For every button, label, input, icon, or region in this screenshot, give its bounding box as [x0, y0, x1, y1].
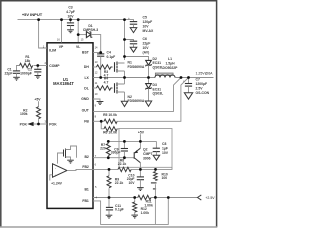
- svg-text:220: 220: [100, 147, 106, 151]
- svg-text:3906: 3906: [143, 156, 151, 160]
- svg-text:DH: DH: [84, 65, 89, 69]
- svg-text:FB: FB: [84, 120, 89, 124]
- svg-text:1µF: 1µF: [162, 146, 168, 150]
- svg-text:+1.24V: +1.24V: [51, 181, 63, 185]
- svg-text:D1: D1: [88, 24, 92, 28]
- svg-text:ILIM: ILIM: [49, 48, 56, 52]
- svg-text:POK: POK: [20, 122, 28, 126]
- svg-text:C8: C8: [162, 142, 166, 146]
- svg-text:FB1: FB1: [82, 199, 89, 203]
- svg-text:18k: 18k: [25, 59, 31, 63]
- svg-text:R6 10.0k: R6 10.0k: [103, 131, 117, 135]
- svg-text:C3: C3: [68, 5, 72, 9]
- svg-text:0.1µF: 0.1µF: [107, 55, 116, 59]
- svg-text:1200µF: 1200µF: [196, 82, 208, 86]
- svg-text:DO5022P: DO5022P: [163, 66, 179, 70]
- svg-text:+5V: +5V: [34, 97, 41, 101]
- svg-text:22.1k: 22.1k: [118, 162, 127, 166]
- svg-text:MAX1864T: MAX1864T: [53, 81, 74, 86]
- svg-text:330pF: 330pF: [111, 151, 121, 155]
- svg-text:4.7µF: 4.7µF: [66, 10, 75, 14]
- svg-text:QS03L: QS03L: [153, 92, 164, 96]
- svg-text:CMPSH-3: CMPSH-3: [83, 28, 98, 32]
- svg-text:10V: 10V: [143, 24, 150, 28]
- svg-text:LX: LX: [84, 76, 89, 80]
- svg-text:POK: POK: [49, 123, 57, 127]
- svg-text:B1: B1: [84, 188, 88, 192]
- svg-text:C7: C7: [196, 78, 200, 82]
- svg-text:FDS6690A: FDS6690A: [128, 99, 145, 103]
- svg-text:FB2: FB2: [82, 165, 89, 169]
- svg-text:VP: VP: [59, 45, 64, 49]
- svg-text:FDS6690A: FDS6690A: [128, 65, 145, 69]
- svg-text:-: -: [55, 167, 56, 171]
- svg-text:1.00k: 1.00k: [141, 211, 150, 215]
- svg-text:4.7: 4.7: [104, 80, 109, 84]
- svg-text:0.1µF: 0.1µF: [115, 208, 124, 212]
- svg-text:+2.5V: +2.5V: [205, 196, 215, 200]
- svg-text:2.5V: 2.5V: [196, 87, 204, 91]
- svg-text:1.25V@6A: 1.25V@6A: [196, 72, 214, 76]
- svg-text:+5V INPUT: +5V INPUT: [22, 12, 43, 17]
- svg-text:+: +: [55, 174, 57, 178]
- svg-text:+: +: [128, 17, 130, 21]
- svg-text:(AV): (AV): [143, 50, 150, 54]
- svg-text:COMP: COMP: [49, 64, 60, 68]
- svg-text:+5V: +5V: [138, 130, 145, 134]
- svg-text:C6: C6: [143, 37, 147, 41]
- svg-text:22.1k: 22.1k: [115, 181, 124, 185]
- svg-text:10V: 10V: [162, 151, 169, 155]
- svg-text:10V: 10V: [128, 181, 135, 185]
- svg-text:BST: BST: [82, 51, 90, 55]
- svg-text:B2: B2: [84, 155, 88, 159]
- svg-text:120µF: 120µF: [143, 20, 153, 24]
- svg-text:VL: VL: [76, 45, 80, 49]
- svg-text:1000pF: 1000pF: [20, 71, 32, 75]
- svg-text:DL: DL: [84, 86, 89, 90]
- svg-text:GND: GND: [81, 97, 89, 101]
- svg-text:OUT: OUT: [82, 109, 90, 113]
- svg-text:10V: 10V: [67, 14, 74, 18]
- svg-text:C5: C5: [143, 15, 147, 19]
- svg-text:100: 100: [162, 176, 168, 180]
- svg-text:R5 10.0k: R5 10.0k: [103, 113, 117, 117]
- svg-text:22pF: 22pF: [5, 72, 13, 76]
- svg-text:1.5µH: 1.5µH: [165, 62, 175, 66]
- svg-text:C4: C4: [107, 50, 111, 54]
- svg-text:22µF: 22µF: [143, 41, 151, 45]
- svg-text:100k: 100k: [20, 112, 28, 116]
- svg-text:OS-CON: OS-CON: [196, 91, 210, 95]
- svg-text:10V: 10V: [143, 46, 150, 50]
- svg-text:MV-AX: MV-AX: [143, 29, 154, 33]
- svg-text:L1: L1: [168, 57, 172, 61]
